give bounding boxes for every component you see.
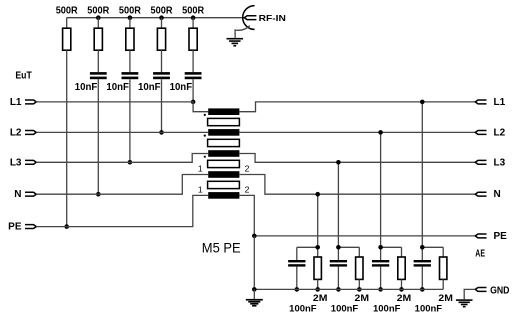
- terminal AE L1: [475, 100, 486, 104]
- resistor 500R #5: [189, 28, 197, 50]
- polarity dot winding L1: [204, 114, 206, 116]
- terminal EuT L2: [25, 130, 36, 134]
- svg-text:500R: 500R: [182, 5, 204, 16]
- svg-text:2M: 2M: [397, 293, 412, 303]
- svg-text:L3: L3: [10, 157, 22, 168]
- wire PE right row: [239, 195, 475, 236]
- wire L1 left row: [36, 102, 208, 112]
- junction R1/PE: [64, 224, 69, 229]
- svg-text:10nF: 10nF: [138, 82, 161, 93]
- wire RF-IN shield tap: [235, 26, 250, 38]
- junction C2/row: [128, 160, 133, 165]
- wire leg 1 bottoms: [297, 267, 318, 290]
- wire GND to earth: [464, 289, 475, 299]
- wire PE left row: [36, 195, 208, 226]
- inductor choke winding L2: [208, 129, 239, 136]
- wire C4 bottom to row: [192, 79, 194, 102]
- inductor choke winding L1: [208, 108, 239, 115]
- wire L3 left row: [36, 154, 208, 163]
- resistor 500R #3: [126, 28, 134, 50]
- wire decoupling riser leg 2: [337, 162, 339, 247]
- wire decoupling riser leg 3: [380, 132, 382, 247]
- resistor 500R #2: [94, 28, 102, 50]
- ground GND earth: [456, 299, 473, 301]
- junction top bus col 2: [96, 15, 101, 20]
- capacitor 10nF #2: [122, 72, 139, 75]
- wire leg 2 top: [338, 247, 359, 260]
- resistor 500R #4: [157, 28, 165, 50]
- connector RF-IN coax arc: [243, 6, 255, 30]
- choke core bar 2 (open): [208, 139, 240, 146]
- junction top bus col 3: [128, 15, 133, 20]
- wire leg 4 bottoms: [422, 267, 443, 290]
- terminal AE L3: [475, 160, 486, 164]
- junction leg 4 cap/bus: [420, 287, 425, 292]
- connector RF-IN center pin fork: [244, 16, 256, 20]
- junction C4/row: [191, 100, 196, 105]
- ground bottom bus: [253, 289, 255, 299]
- resistor 500R #1: [63, 28, 71, 50]
- svg-text:L1: L1: [494, 97, 506, 108]
- svg-text:10nF: 10nF: [170, 82, 193, 93]
- wire decoupling riser leg 1: [317, 194, 319, 247]
- svg-text:PE: PE: [8, 222, 22, 233]
- svg-text:L2: L2: [494, 127, 506, 138]
- junction C3/row: [159, 130, 164, 135]
- svg-text:2: 2: [245, 185, 250, 195]
- resistor 2M #3: [398, 257, 405, 279]
- junction bottom bus left: [252, 287, 257, 292]
- svg-text:N: N: [14, 189, 21, 200]
- ground RF-IN shield: [227, 38, 244, 40]
- resistor 2M #2: [356, 257, 363, 279]
- junction leg 4 top: [420, 245, 425, 250]
- wire resistor R1 top stub: [66, 18, 68, 29]
- svg-text:10nF: 10nF: [75, 82, 98, 93]
- terminal EuT PE: [25, 225, 36, 229]
- svg-text:L1: L1: [10, 97, 22, 108]
- wire R3 bottom to C2 top: [129, 50, 131, 72]
- resistor 2M #4: [440, 257, 447, 279]
- junction leg 2 cap/bus: [336, 287, 341, 292]
- svg-text:EuT: EuT: [15, 71, 31, 82]
- choke core bar 4 (open): [208, 181, 240, 188]
- junction riser leg 4 / row: [420, 100, 425, 105]
- terminal AE PE: [475, 234, 486, 238]
- terminal EuT N: [25, 192, 36, 196]
- resistor 2M #1: [314, 257, 321, 279]
- capacitor 100nF #4: [414, 260, 431, 262]
- wire R1 bottom to PE row: [66, 50, 68, 226]
- junction top bus col 4: [159, 15, 164, 20]
- capacitor 100nF #3: [372, 260, 389, 262]
- wire N left row: [36, 175, 208, 195]
- capacitor 100nF #1: [288, 260, 305, 262]
- wire leg 3 top: [381, 247, 402, 260]
- choke core bar 1 (open): [208, 118, 240, 125]
- svg-text:100nF: 100nF: [415, 303, 443, 313]
- junction leg 3 top: [378, 245, 383, 250]
- wire leg 1 top: [297, 247, 318, 260]
- terminal AE N: [475, 192, 486, 196]
- wire PE to bottom bus: [253, 236, 255, 290]
- wire R5 bottom to C4 top: [192, 50, 194, 72]
- wire resistor R3 top stub: [129, 18, 131, 29]
- inductor choke winding N: [208, 171, 239, 178]
- wire top RF bus: [67, 17, 245, 19]
- svg-text:500R: 500R: [87, 5, 109, 16]
- svg-text:1: 1: [198, 185, 203, 195]
- choke core bar 3 (open): [208, 160, 240, 167]
- svg-text:2M: 2M: [355, 293, 370, 303]
- wire R2 bottom to C1 top: [97, 50, 99, 72]
- wire leg 4 top: [422, 247, 443, 260]
- svg-text:100nF: 100nF: [331, 303, 359, 313]
- svg-text:2M: 2M: [313, 293, 328, 303]
- wire L3 right row: [239, 154, 475, 163]
- wire C2 bottom to row: [129, 79, 131, 162]
- svg-text:100nF: 100nF: [373, 303, 401, 313]
- junction leg 2 res/bus: [357, 287, 362, 292]
- svg-text:10nF: 10nF: [106, 82, 129, 93]
- capacitor 10nF #4: [185, 72, 202, 75]
- wire N right row: [239, 175, 475, 195]
- svg-text:L3: L3: [494, 157, 506, 168]
- svg-text:PE: PE: [494, 231, 508, 242]
- capacitor 100nF #2: [330, 260, 347, 262]
- wire leg 3 bottoms: [381, 267, 402, 290]
- wire L1 right row: [239, 102, 475, 112]
- junction riser leg 3 / row: [378, 130, 383, 135]
- inductor choke winding PE: [208, 192, 239, 199]
- terminal EuT L3: [25, 160, 36, 164]
- junction leg 1 cap/bus: [295, 287, 300, 292]
- junction top bus col 5: [191, 15, 196, 20]
- capacitor 10nF #3: [153, 72, 170, 75]
- capacitor 10nF #1: [90, 72, 107, 75]
- junction riser leg 2 / row: [336, 160, 341, 165]
- wire L2 right row: [239, 131, 475, 133]
- svg-text:M5 PE: M5 PE: [202, 241, 241, 257]
- junction leg 3 cap/bus: [378, 287, 383, 292]
- wire C3 bottom to row: [161, 79, 163, 132]
- svg-text:AE: AE: [475, 249, 485, 260]
- svg-text:L2: L2: [10, 127, 22, 138]
- wire bottom ground bus: [254, 288, 443, 290]
- junction PE right / ground stub: [252, 234, 257, 239]
- wire L2 left row: [36, 131, 208, 133]
- inductor choke winding L3: [208, 150, 239, 157]
- svg-text:500R: 500R: [151, 5, 173, 16]
- polarity dot winding L3: [204, 156, 206, 158]
- junction C1/row: [96, 192, 101, 197]
- svg-text:2M: 2M: [438, 293, 453, 303]
- junction riser leg 1 / row: [315, 192, 320, 197]
- wire resistor R5 top stub: [192, 18, 194, 29]
- svg-text:2: 2: [245, 164, 250, 174]
- wire leg 2 bottoms: [338, 267, 359, 290]
- wire resistor R4 top stub: [161, 18, 163, 29]
- svg-text:N: N: [494, 189, 501, 200]
- wire decoupling riser leg 4: [421, 102, 423, 247]
- svg-text:100nF: 100nF: [289, 303, 317, 313]
- svg-text:1: 1: [198, 164, 203, 174]
- junction leg 2 top: [336, 245, 341, 250]
- wire R4 bottom to C3 top: [161, 50, 163, 72]
- terminal GND: [475, 287, 486, 291]
- wire C1 bottom to row: [97, 79, 99, 194]
- svg-text:500R: 500R: [119, 5, 141, 16]
- svg-text:500R: 500R: [56, 5, 78, 16]
- junction leg 3 res/bus: [399, 287, 404, 292]
- polarity dot winding L2: [204, 135, 206, 137]
- wire resistor R2 top stub: [97, 18, 99, 29]
- junction leg 1 top: [315, 245, 320, 250]
- junction leg 1 res/bus: [315, 287, 320, 292]
- svg-text:GND: GND: [490, 285, 509, 296]
- terminal AE L2: [475, 130, 486, 134]
- svg-text:RF-IN: RF-IN: [259, 13, 286, 23]
- terminal EuT L1: [25, 100, 36, 104]
